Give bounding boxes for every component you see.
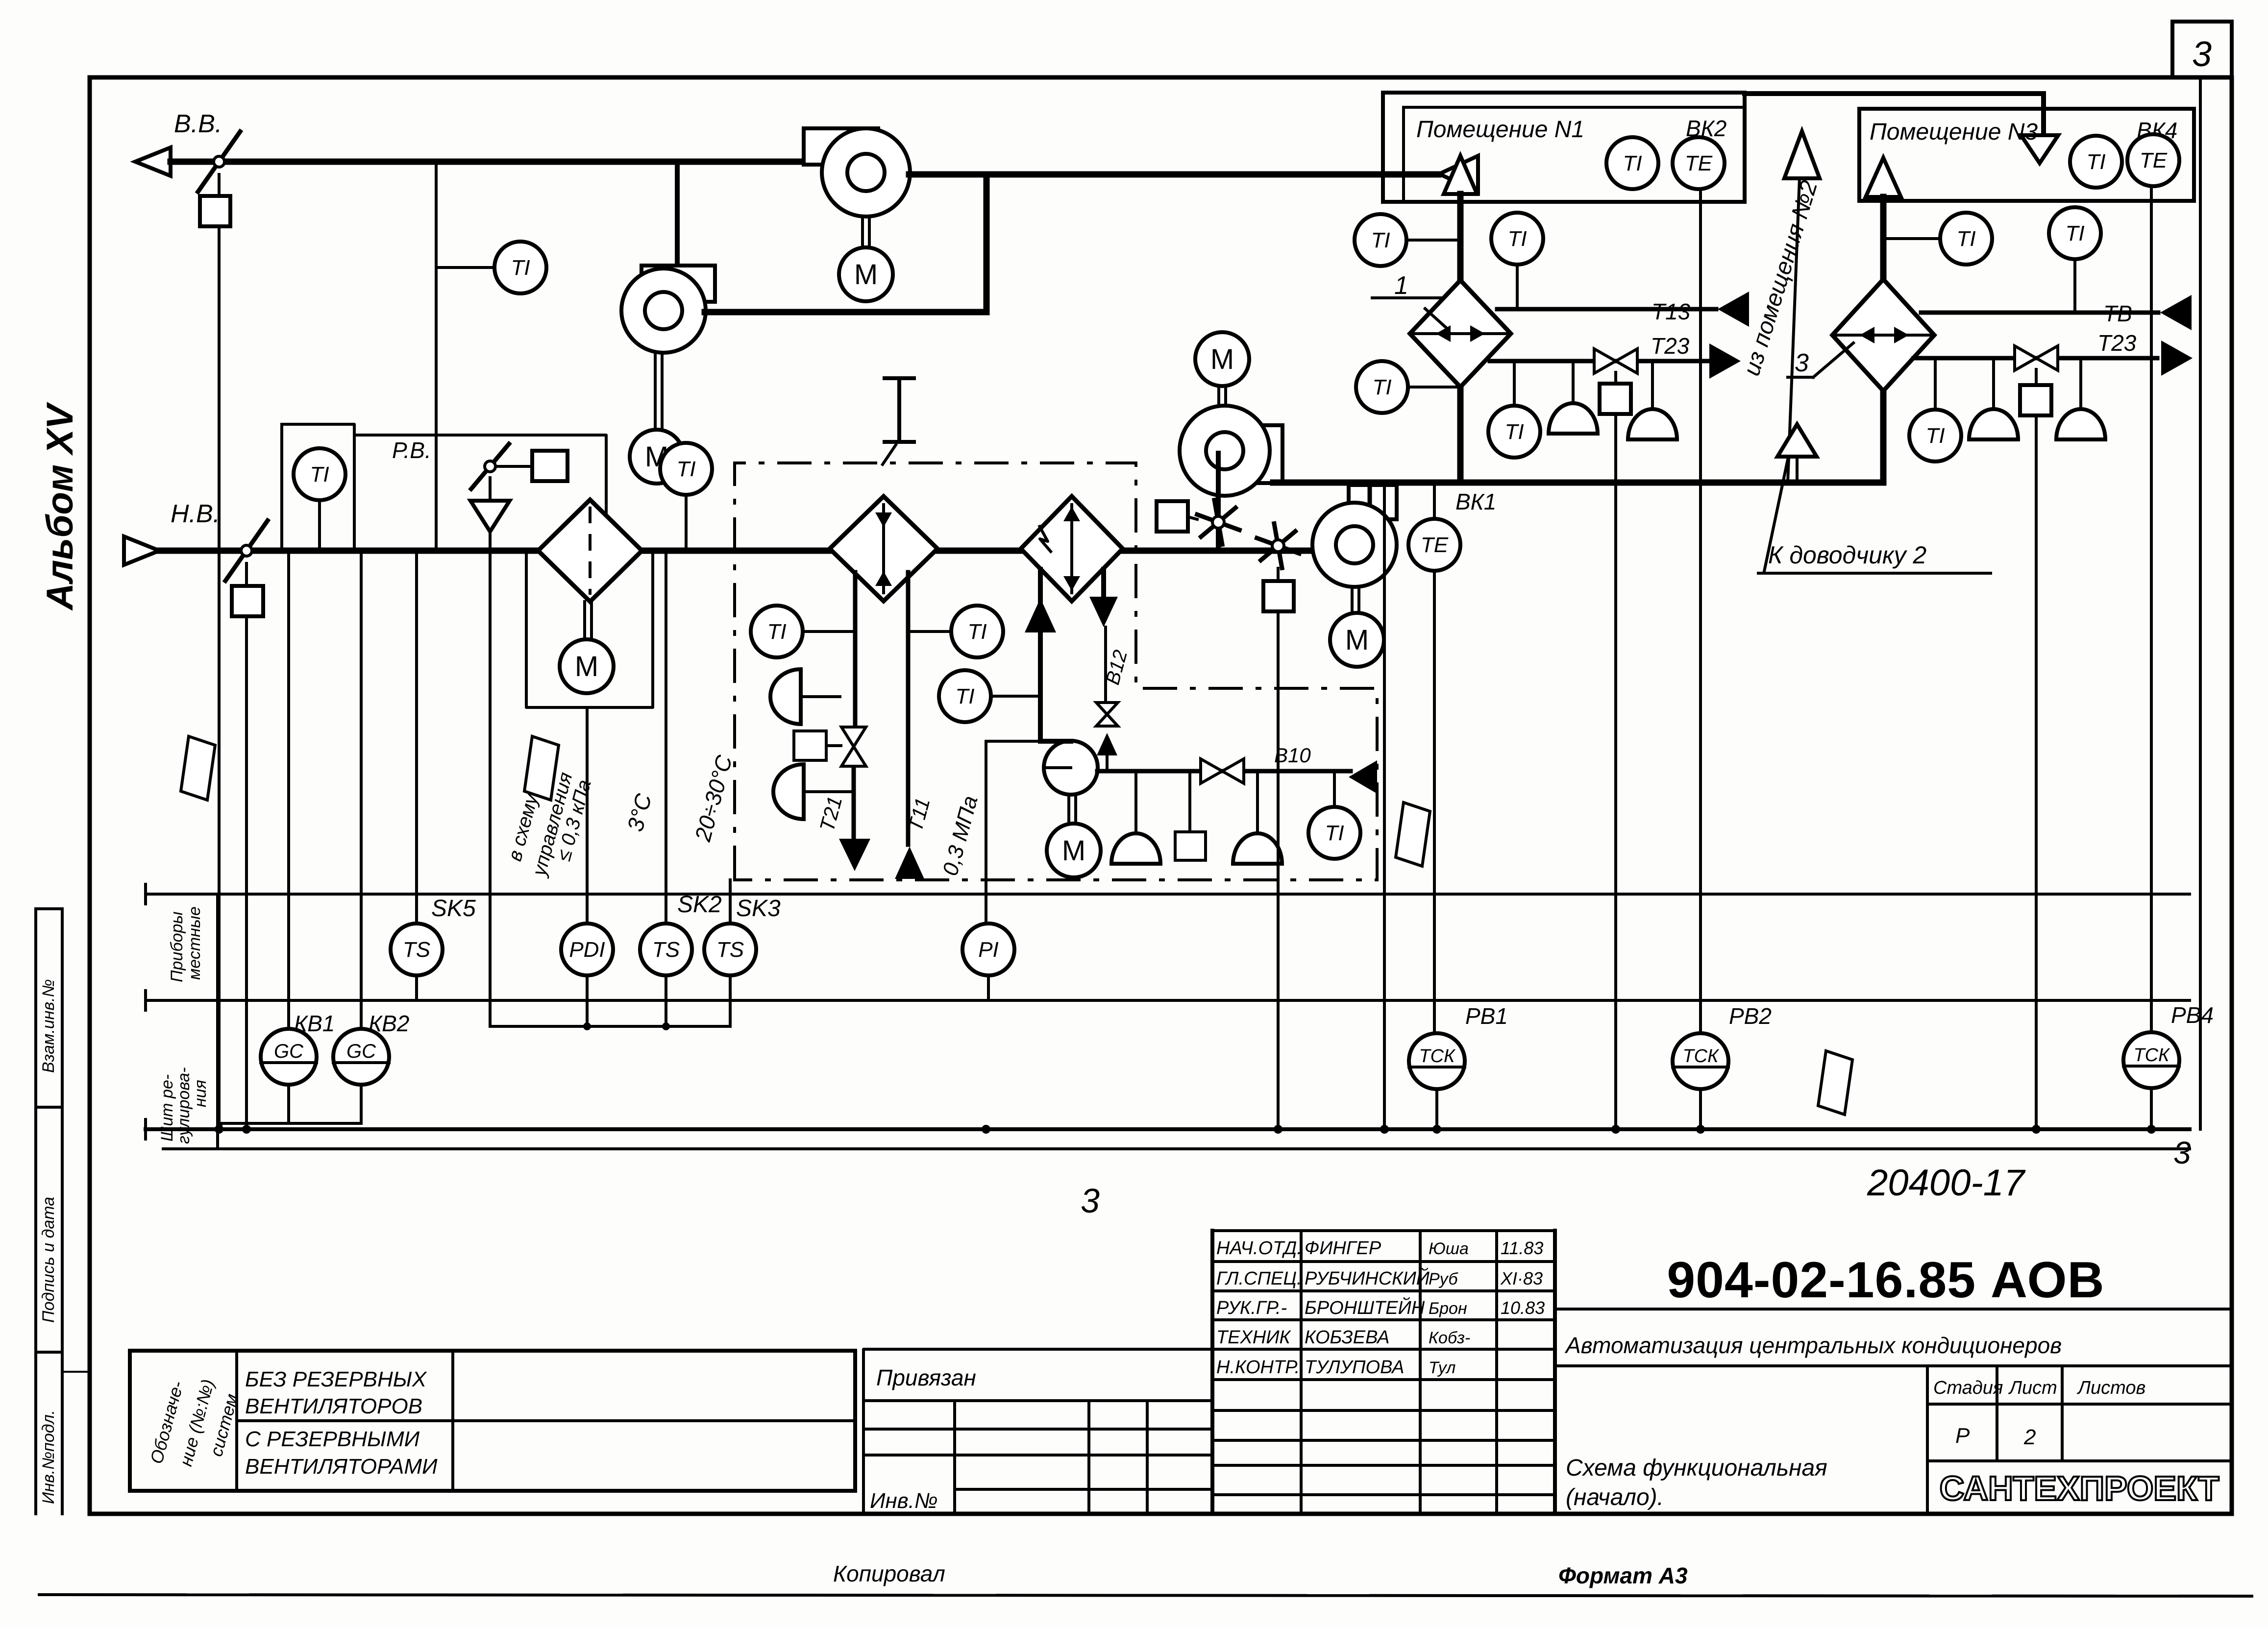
Т21 arrow (839, 839, 870, 871)
В12 small arrow up (1097, 733, 1117, 755)
PD1 bottom stem (586, 975, 589, 1026)
Р.В. damper (471, 444, 509, 489)
motor M of fan A (839, 247, 893, 301)
parallelogram flag center (524, 736, 559, 800)
P1 (962, 923, 1014, 975)
svg-text:ТI: ТI (1507, 227, 1527, 251)
T1 mid upper wire (908, 630, 951, 633)
GC bottom loop (287, 1085, 290, 1123)
svg-text:ТСК: ТСК (1682, 1046, 1720, 1067)
panel bus line 2 (163, 1147, 2190, 1150)
svg-text:КВ1: КВ1 (294, 1011, 335, 1036)
wire fan B inlet (675, 162, 680, 262)
panel bus line 1 (146, 1127, 2190, 1131)
svg-text:ТСК: ТСК (2133, 1045, 2170, 1066)
T1 after filter stem (685, 495, 688, 551)
svg-text:ТI: ТI (676, 457, 695, 481)
В12 pipe upper (1101, 569, 1106, 598)
svg-text:ТСК: ТСК (1419, 1046, 1456, 1067)
К доводчику 2 underline (1758, 572, 1991, 575)
motor M above recirculation fan (1195, 332, 1249, 386)
svg-text:Т23: Т23 (1651, 333, 1690, 359)
supply line drop to bus (1383, 483, 1386, 1129)
svg-text:ния: ния (191, 1080, 210, 1107)
svg-text:ТЕ: ТЕ (1421, 533, 1449, 557)
room3 entry open triangle (2021, 135, 2058, 163)
discharge valve (1201, 759, 1222, 783)
svg-text:РУБЧИНСКИЙ: РУБЧИНСКИЙ (1305, 1267, 1430, 1289)
svg-text:Копировал: Копировал (833, 1561, 945, 1586)
room1 riser (1457, 194, 1464, 483)
T1 room3 a (1940, 213, 1992, 265)
recirculation fan (1234, 425, 1282, 483)
ТСК РВ1 stems (1435, 1032, 1438, 1035)
svg-text:ТВ: ТВ (2103, 301, 2132, 326)
wire В.В. to Н.В. vertical (435, 162, 438, 551)
svg-text:Брон: Брон (1429, 1299, 1467, 1318)
wire P1 tap (986, 740, 1040, 743)
T1 intake stem (318, 500, 321, 551)
doводчик 3 diamond (1832, 279, 1934, 391)
В.В. pipe left segment (171, 159, 823, 165)
T1 room1 left lower (1356, 361, 1408, 413)
room3 TE (2127, 134, 2179, 186)
svg-text:РВ2: РВ2 (1729, 1003, 1772, 1029)
fan B (reserve exhaust fan) (641, 266, 715, 302)
svg-text:М: М (1345, 624, 1369, 656)
pump circle (1044, 741, 1098, 795)
band line panel top (146, 999, 2190, 1002)
В.В. damper (198, 132, 240, 192)
svg-text:Т13: Т13 (1652, 299, 1691, 324)
room1 box (1383, 93, 1745, 202)
signal room3 square to bus (2035, 415, 2038, 1129)
svg-text:SK3: SK3 (736, 896, 781, 922)
left margin column (34, 909, 37, 1514)
svg-text:Формат А3: Формат А3 (1558, 1563, 1688, 1588)
svg-text:Р: Р (1955, 1424, 1970, 1448)
Н.В. star damper (1278, 546, 1299, 554)
band separator (216, 894, 219, 1149)
T1 room1 left lower wire (1408, 386, 1460, 389)
svg-text:К доводчику 2: К доводчику 2 (1768, 541, 1926, 569)
svg-text:гулирова-: гулирова- (174, 1067, 193, 1144)
svg-text:ФИНГЕР: ФИНГЕР (1305, 1238, 1381, 1259)
parallelogram flag pump area (1396, 802, 1430, 866)
svg-text:2: 2 (2023, 1425, 2036, 1449)
Т13 arrow (1718, 291, 1749, 327)
svg-text:ТI: ТI (511, 256, 530, 280)
svg-text:XI·83: XI·83 (1500, 1268, 1543, 1288)
shaft supply fan motor (1351, 587, 1354, 612)
svg-text:ТЕ: ТЕ (1685, 151, 1713, 175)
T1 mid lower wire (991, 695, 1040, 698)
room1 TI (1606, 137, 1658, 189)
svg-text:ТI: ТI (1925, 424, 1945, 448)
ТСК РВ1 (1409, 1033, 1465, 1089)
TS SK3 (704, 923, 756, 975)
svg-text:РВ1: РВ1 (1465, 1003, 1508, 1029)
svg-text:ТI: ТI (1372, 375, 1391, 399)
svg-text:местные: местные (185, 906, 204, 980)
dome below discharge 1 (1111, 833, 1160, 864)
TE ВК1 (1408, 519, 1460, 571)
wire T1 branch (436, 266, 494, 269)
T1 intake circle (294, 448, 345, 500)
signal star square to bus (1277, 611, 1280, 1129)
T1 room1 left upper wire (1407, 239, 1460, 242)
svg-text:ТI: ТI (1504, 420, 1524, 444)
shaft fan B - motor (654, 353, 657, 430)
dome room3 a (1969, 409, 2018, 439)
TE ВК1 signal down to РВ1 (1433, 571, 1436, 1034)
обозначение table (130, 1351, 855, 1491)
T1 after filter (660, 443, 712, 495)
T1 below Т23 (1488, 406, 1540, 458)
svg-text:Лист: Лист (2008, 1378, 2057, 1398)
svg-text:М: М (854, 259, 878, 291)
svg-text:ВК1: ВК1 (1455, 489, 1496, 514)
svg-text:НАЧ.ОТД.: НАЧ.ОТД. (1216, 1238, 1302, 1259)
doводчик 1 diamond (1410, 280, 1511, 387)
Т23 arrow room1 (1709, 343, 1741, 379)
TS SK2 (640, 923, 692, 975)
signal from Р.В. square down (489, 551, 492, 1026)
ТСК РВ2 stems (1699, 1089, 1702, 1129)
svg-text:Альбом XV: Альбом XV (39, 402, 81, 611)
svg-text:ТЕ: ТЕ (2140, 148, 2168, 172)
svg-text:SK2: SK2 (677, 892, 722, 918)
band line local instruments (146, 893, 2190, 896)
TS SK2 bottom stem (665, 975, 667, 1026)
TS SK5 (391, 923, 443, 975)
signal to КВ2 (360, 551, 363, 1031)
Т13 line (1497, 307, 1716, 312)
svg-text:3: 3 (2173, 1135, 2191, 1170)
P1 bottom stem (987, 975, 990, 1000)
svg-text:РI: РI (978, 938, 999, 962)
Т21 pipe lower (852, 767, 856, 839)
svg-text:С РЕЗЕРВНЫМИ: С РЕЗЕРВНЫМИ (245, 1427, 420, 1451)
room3 box (1859, 109, 2194, 201)
svg-text:ТS: ТS (652, 938, 680, 962)
fan A (exhaust fan ВК) (804, 128, 878, 165)
svg-text:Р.В.: Р.В. (392, 437, 431, 463)
svg-text:Н.В.: Н.В. (171, 500, 220, 528)
supply air line (1273, 480, 1883, 486)
pump discharge line (1097, 769, 1351, 774)
svg-text:10.83: 10.83 (1501, 1298, 1545, 1318)
shaft fan A - motor (861, 217, 864, 247)
recirc star damper (1218, 522, 1239, 530)
room3 riser (1880, 197, 1887, 483)
svg-text:1: 1 (1394, 271, 1408, 300)
shaft filter - motor (583, 602, 586, 639)
actuator square room3 (2020, 385, 2051, 415)
К доводчику 2 triangle (1777, 424, 1817, 457)
dome local 1 (770, 669, 801, 724)
Т21 valve (841, 727, 866, 747)
GC КВ2 (333, 1029, 389, 1085)
heater diamond (830, 496, 937, 601)
из помещения №2 line (1788, 178, 1800, 483)
TE room1 signal down to РВ2 (1699, 189, 1702, 1034)
svg-text:М: М (575, 651, 598, 682)
recirc damper square (1157, 501, 1188, 532)
К доводчику 2 leader (1764, 460, 1788, 571)
svg-text:GС: GС (346, 1041, 376, 1062)
svg-text:3: 3 (1081, 1182, 1100, 1220)
T1 below Т23 room3 (1909, 410, 1961, 461)
cooler axis (1070, 505, 1073, 593)
svg-text:Листов: Листов (2076, 1378, 2145, 1398)
T1 heater circle (751, 606, 803, 657)
bottom paper edge line (39, 1595, 2252, 1596)
svg-text:Тул: Тул (1429, 1359, 1455, 1377)
Т23 arrow room3 (2161, 340, 2193, 376)
svg-text:Привязан: Привязан (876, 1365, 976, 1390)
svg-text:Юша: Юша (1429, 1239, 1469, 1258)
dome room1 a (1549, 403, 1598, 434)
svg-text:904-02-16.85 АОВ: 904-02-16.85 АОВ (1667, 1252, 2104, 1309)
signal to SK5 (415, 551, 418, 923)
PD1 (561, 923, 613, 975)
svg-text:ТI: ТI (1325, 821, 1344, 845)
svg-text:РУК.ГР.-: РУК.ГР.- (1216, 1298, 1287, 1318)
svg-text:Инв.№: Инв.№ (870, 1489, 938, 1513)
svg-text:М: М (1062, 835, 1085, 867)
right edge signal line (2199, 78, 2202, 1129)
svg-text:ТI: ТI (2086, 150, 2105, 174)
svg-text:ТI: ТI (955, 684, 974, 708)
motor M of fan B (630, 430, 684, 484)
Р.В. line to Н.В. (489, 532, 492, 551)
cold supply arrow (1025, 598, 1056, 632)
В.В. open arrow (135, 147, 171, 176)
section I mark (897, 378, 901, 442)
svg-text:ТI: ТI (767, 620, 786, 644)
T1 room3 b (2049, 207, 2101, 259)
title divider line (1555, 1308, 2232, 1311)
svg-text:ВЕНТИЛЯТОРОВ: ВЕНТИЛЯТОРОВ (245, 1394, 422, 1418)
signal room1 square to bus (1614, 414, 1617, 1129)
svg-text:В.В.: В.В. (174, 110, 222, 138)
svg-text:SK5: SK5 (431, 896, 476, 922)
svg-text:11.83: 11.83 (1501, 1238, 1543, 1258)
В12 arrow down (1089, 597, 1118, 627)
svg-text:ТI: ТI (1956, 227, 1975, 251)
svg-text:М: М (1210, 343, 1234, 375)
ТСК РВ2 (1673, 1033, 1728, 1089)
Н.В. damper (225, 521, 268, 581)
svg-text:Инв.№подл.: Инв.№подл. (39, 1410, 58, 1504)
привязан table (863, 1349, 1212, 1514)
parallelogram flag left (181, 736, 215, 800)
actuator square discharge (1175, 832, 1206, 860)
doводчик 3 axis (1833, 334, 1934, 337)
T1 pump stem (1333, 771, 1336, 806)
actuator square T21 valve (794, 731, 826, 760)
parallelogram flag right (1818, 1051, 1852, 1115)
cooler K mark (1039, 525, 1052, 553)
svg-text:Схема функциональная: Схема функциональная (1566, 1455, 1827, 1481)
svg-text:РDI: РDI (569, 938, 605, 962)
GC КВ1 (261, 1029, 317, 1085)
dome below discharge 2 (1233, 833, 1282, 864)
filter diamond (538, 500, 642, 602)
shaft pump - motor (1067, 795, 1070, 824)
Т23 line room3 (1914, 356, 2157, 361)
svg-text:Взам.инв.№: Взам.инв.№ (39, 979, 58, 1073)
ТВ line (1921, 311, 2158, 315)
section I boundary (735, 463, 1377, 880)
T1 on Т13 (1491, 213, 1543, 265)
dome room1 b (1628, 409, 1677, 439)
Р.В. open triangle (470, 501, 510, 532)
svg-text:Щит ре-: Щит ре- (158, 1074, 176, 1141)
room3 supply open arrow (1866, 158, 1901, 197)
svg-text:ТI: ТI (1623, 151, 1642, 175)
svg-text:Помещение N3: Помещение N3 (1870, 119, 2038, 145)
svg-text:Руб: Руб (1429, 1270, 1458, 1288)
Н.В. open arrow (124, 536, 159, 565)
exhaust line to room3 (1745, 91, 2044, 96)
svg-text:БЕЗ РЕЗЕРВНЫХ: БЕЗ РЕЗЕРВНЫХ (245, 1367, 427, 1391)
К доводчику 2 stem (1796, 457, 1799, 483)
signal line from Н.В. damper to bus (245, 616, 248, 1129)
signal to КВ1 (287, 551, 290, 1031)
recirc fan drop (1216, 453, 1221, 551)
Т11 return pipe (906, 572, 911, 845)
svg-text:GС: GС (274, 1041, 304, 1062)
В10 arrow (1349, 760, 1377, 794)
svg-text:ТS: ТS (403, 938, 430, 962)
T1 room3 a wire (1883, 237, 1940, 240)
signal to SK3 top (729, 880, 732, 923)
Т23 valve room1 (1594, 349, 1616, 373)
motor M of filter shaker (560, 639, 614, 693)
cooler diamond (1021, 496, 1123, 601)
из помещения №2 arrow (1784, 131, 1820, 178)
ТСК РВ4 (2123, 1032, 2179, 1088)
supply fan ВК1 (1349, 485, 1397, 519)
Н.В. star square (1263, 581, 1294, 611)
motor M of pump (1047, 824, 1101, 877)
svg-text:Стадия: Стадия (1933, 1378, 2003, 1398)
TE ВК1 stem up (1433, 483, 1436, 518)
В12 pipe (1104, 627, 1107, 704)
signal filter motor to PD1 (586, 707, 589, 923)
svg-text:ВЕНТИЛЯТОРАМИ: ВЕНТИЛЯТОРАМИ (245, 1455, 438, 1479)
dome local 2 (773, 764, 804, 819)
svg-text:Т23: Т23 (2097, 330, 2137, 356)
svg-text:САНТЕХПРОЕКТ: САНТЕХПРОЕКТ (1940, 1469, 2219, 1507)
T1 mid upper (951, 606, 1003, 657)
T1 pump area (1308, 807, 1360, 859)
actuator square room1 (1600, 384, 1631, 414)
svg-text:КВ2: КВ2 (369, 1011, 409, 1036)
svg-text:РВ4: РВ4 (2171, 1002, 2214, 1028)
TS SK3 bottom stem (729, 975, 732, 1026)
svg-text:Кобз-: Кобз- (1429, 1329, 1470, 1347)
cold supply pipe (1038, 569, 1043, 741)
thin box Р.В. chamber (354, 435, 606, 551)
svg-text:БРОНШТЕЙН: БРОНШТЕЙН (1305, 1297, 1425, 1318)
stadia table (1926, 1366, 1929, 1514)
svg-text:Н.КОНТР.: Н.КОНТР. (1216, 1357, 1300, 1378)
svg-text:В10: В10 (1274, 744, 1311, 767)
doводчик 1 axis (1410, 332, 1510, 335)
filter enclosure box (526, 551, 653, 707)
svg-text:3: 3 (2192, 35, 2212, 74)
dome room3 b (2056, 409, 2105, 439)
TS SK5 bottom stem (415, 975, 418, 1000)
motor M of supply fan (1330, 613, 1384, 667)
dome local 1 wire (801, 695, 840, 698)
svg-text:Помещение N1: Помещение N1 (1416, 117, 1584, 143)
ТСК РВ4 stems (2150, 1088, 2153, 1129)
В12 valve (1096, 703, 1118, 714)
signal line from В.В. damper down to panel bus (218, 226, 221, 1129)
filter dashed axis (589, 507, 592, 595)
svg-text:Подпись и дата: Подпись и дата (39, 1197, 58, 1323)
room1 supply open arrow (1444, 156, 1477, 194)
signal to SK2 (665, 551, 667, 923)
svg-text:ТЕХНИК: ТЕХНИК (1216, 1327, 1292, 1348)
svg-text:ТI: ТI (967, 620, 986, 644)
dome local 2 wire (804, 790, 854, 793)
heater axis (882, 505, 885, 593)
В.В. pipe right segment (909, 171, 1438, 178)
T1 room1 left upper (1355, 214, 1406, 266)
fan B outlet loop (705, 309, 986, 316)
Р.В. actuator square (532, 451, 567, 481)
svg-text:ТI: ТI (310, 462, 329, 486)
signature table grid (1212, 1229, 1555, 1232)
svg-text:ГЛ.СПЕЦ.: ГЛ.СПЕЦ. (1216, 1268, 1302, 1289)
T1 heater connector (804, 630, 855, 633)
svg-text:ТI: ТI (2065, 221, 2084, 245)
TE room3 signal down to РВ4 (2150, 187, 2153, 1034)
svg-text:КОБЗЕВА: КОБЗЕВА (1305, 1327, 1390, 1348)
В.В. damper actuator square (200, 196, 230, 226)
Т21 hot water pipe (853, 572, 858, 726)
bus junction dots (215, 1125, 223, 1134)
Т23 line room1 (1490, 359, 1708, 364)
T1 on В.В. line (494, 242, 546, 293)
shaft recirc motor (1217, 386, 1220, 408)
room3 TI (2070, 136, 2122, 188)
ТВ arrow (2160, 295, 2192, 330)
T1 mid lower (939, 670, 991, 722)
svg-text:20400-17: 20400-17 (1867, 1162, 2026, 1204)
panel jumper wire (490, 1025, 730, 1028)
Т23 valve room3 (2015, 346, 2036, 370)
Н.В. damper actuator square (232, 586, 263, 616)
svg-text:3: 3 (1795, 349, 1809, 377)
room1 exhaust open arrow (1439, 156, 1478, 192)
supply fan stub (1368, 483, 1372, 504)
Н.В. pipe (159, 548, 1355, 554)
thin box air intake (282, 424, 354, 551)
svg-text:Приборы: Приборы (168, 912, 186, 982)
svg-text:ТS: ТS (716, 938, 744, 962)
room1 TE (1673, 137, 1725, 189)
Т11 arrow (895, 847, 924, 879)
svg-text:ТI: ТI (1371, 228, 1390, 252)
title line under theme (1555, 1364, 2232, 1367)
sheet corner label box 3 (2172, 22, 2232, 77)
